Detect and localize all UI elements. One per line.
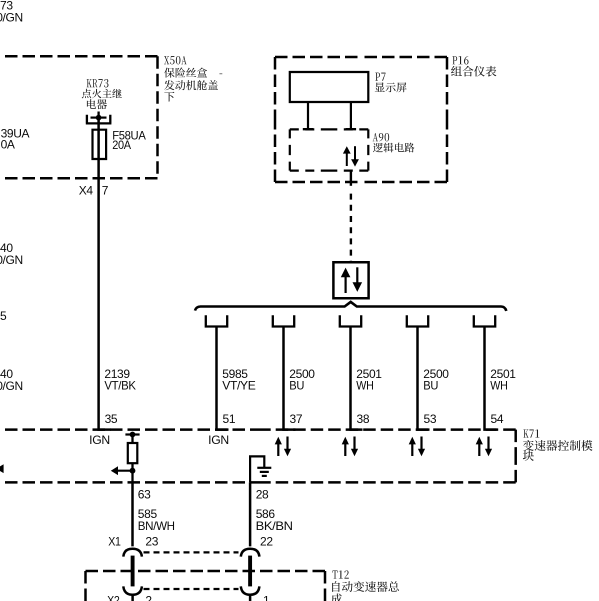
svg-text:0/GN: 0/GN <box>0 379 23 393</box>
svg-text:X4: X4 <box>79 184 94 198</box>
svg-text:28: 28 <box>256 487 269 501</box>
svg-text:35: 35 <box>105 412 118 426</box>
svg-text:20A: 20A <box>112 138 131 152</box>
svg-text:WH: WH <box>490 379 507 393</box>
svg-text:63: 63 <box>138 487 151 501</box>
svg-text:51: 51 <box>223 412 236 426</box>
svg-text:WH: WH <box>356 379 373 393</box>
svg-text:VT/YE: VT/YE <box>222 379 256 393</box>
svg-text:7: 7 <box>102 184 109 198</box>
svg-text:BU: BU <box>289 379 304 393</box>
svg-text:23: 23 <box>145 535 158 549</box>
svg-text:BK/BN: BK/BN <box>256 519 293 533</box>
svg-text:0A: 0A <box>1 138 15 152</box>
svg-text:0/GN: 0/GN <box>0 11 23 25</box>
svg-text:2: 2 <box>145 594 152 601</box>
svg-text:37: 37 <box>290 412 303 426</box>
svg-text:0/GN: 0/GN <box>0 253 23 267</box>
svg-text:BN/WH: BN/WH <box>138 519 175 533</box>
svg-text:VT/BK: VT/BK <box>104 379 136 393</box>
svg-text:X2: X2 <box>107 594 120 601</box>
svg-text:BU: BU <box>423 379 438 393</box>
svg-text:38: 38 <box>357 412 370 426</box>
svg-text:54: 54 <box>491 412 504 426</box>
svg-text:53: 53 <box>424 412 437 426</box>
svg-text:IGN: IGN <box>89 433 110 447</box>
svg-text:1: 1 <box>263 594 270 601</box>
svg-text:X1: X1 <box>108 535 121 549</box>
svg-text:5: 5 <box>0 309 7 323</box>
svg-text:IGN: IGN <box>208 433 229 447</box>
svg-text:22: 22 <box>260 535 273 549</box>
